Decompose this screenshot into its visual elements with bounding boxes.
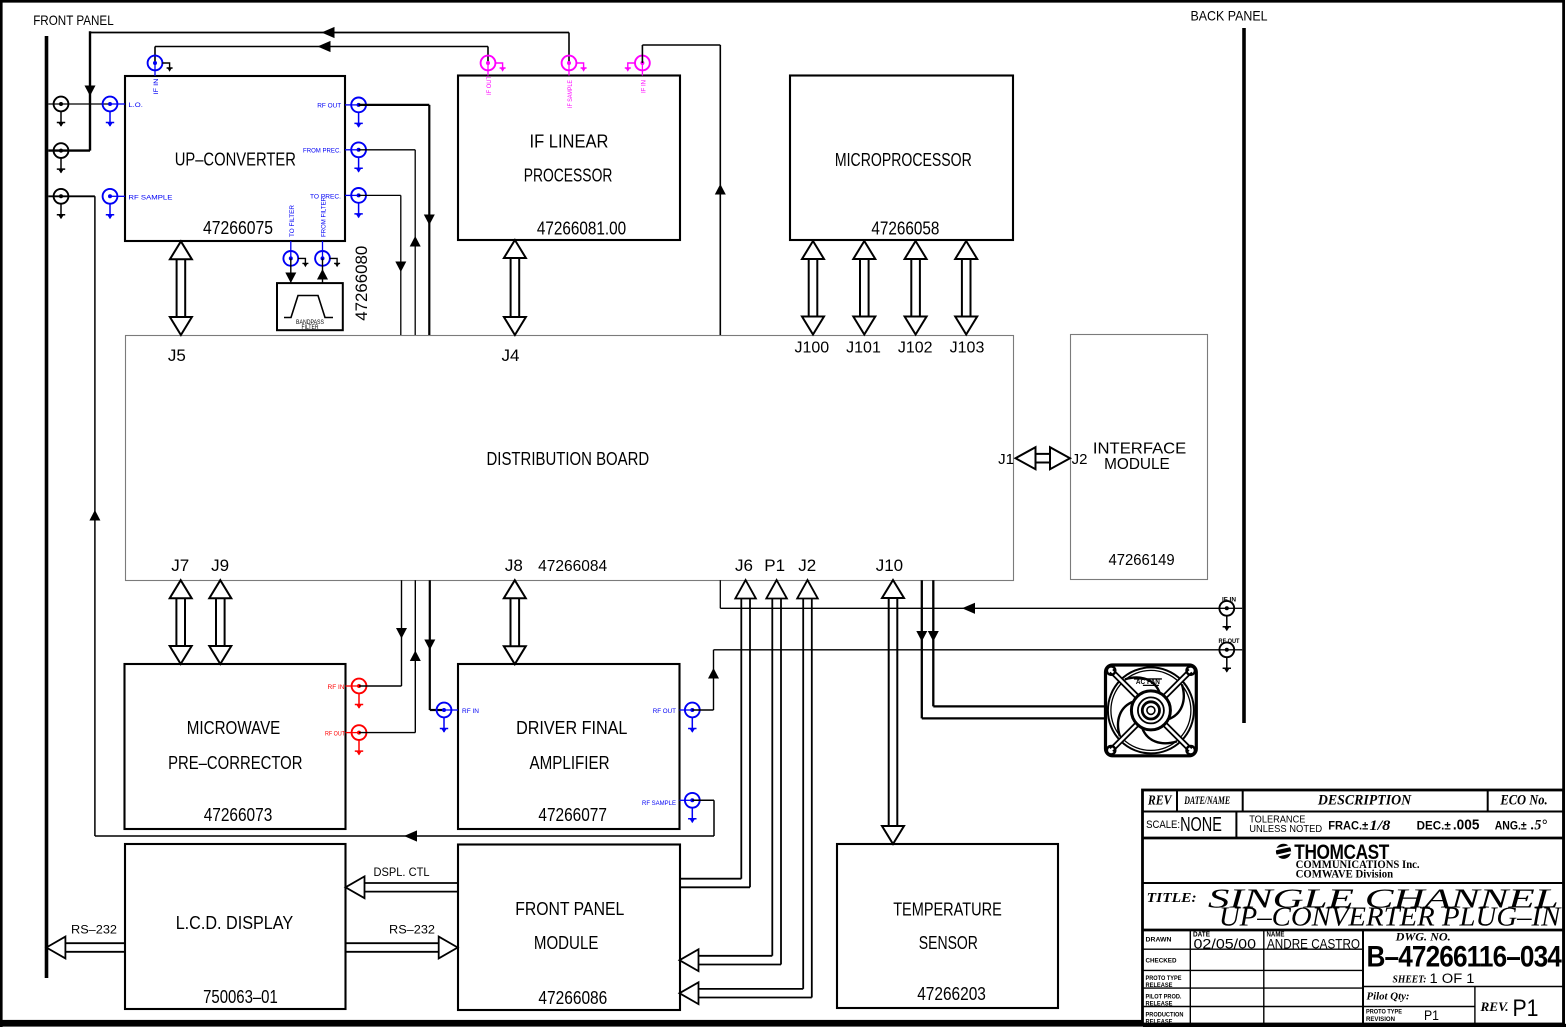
wire RF OUT up-converter to driver RF IN <box>359 105 435 335</box>
connector IF OUT if-linear-processor <box>481 56 506 95</box>
value 47266080 <box>352 246 371 321</box>
svg-text:IF IN: IF IN <box>641 80 648 93</box>
svg-text:J2: J2 <box>1072 451 1088 468</box>
wire FROM FILTER from bandpass filter <box>317 258 328 283</box>
svg-text:IF IN: IF IN <box>1222 598 1236 604</box>
svg-text:J2: J2 <box>798 556 816 575</box>
svg-text:1/8: 1/8 <box>1369 818 1391 834</box>
svg-text:INTERFACE: INTERFACE <box>1093 440 1186 457</box>
block DISTRIBUTION BOARD 47266084 <box>126 336 1014 581</box>
svg-text:FROM PREC.: FROM PREC. <box>303 148 341 155</box>
svg-text:47266203: 47266203 <box>917 984 986 1004</box>
wire front panel coax1 to L.O. <box>48 103 110 105</box>
svg-text:UP–CONVERTER: UP–CONVERTER <box>175 149 296 169</box>
connector RF OUT driver final amplifier <box>653 703 700 733</box>
wire RF IN pre-corrector to distribution board <box>359 580 407 686</box>
svg-text:.005: .005 <box>1453 817 1480 834</box>
revision REV. P1 <box>1479 995 1538 1022</box>
front panel bus bar <box>45 36 49 978</box>
svg-text:L.O.: L.O. <box>128 102 143 109</box>
svg-text:ANDRE CASTRO: ANDRE CASTRO <box>1267 936 1360 952</box>
svg-text:AMPLIFIER: AMPLIFIER <box>530 753 610 773</box>
connector FROM PREC. up-converter <box>303 142 366 172</box>
svg-text:DRIVER FINAL: DRIVER FINAL <box>516 718 627 738</box>
ribbon J7 distribution board to microwave pre-corrector <box>170 580 192 664</box>
title block header REV / DATE-NAME / DESCRIPTION / ECO No. <box>1147 793 1548 809</box>
svg-text:MICROPROCESSOR: MICROPROCESSOR <box>835 150 972 170</box>
node P1 <box>764 556 785 575</box>
ribbon P1 to front panel module <box>680 580 787 971</box>
svg-text:47266073: 47266073 <box>204 805 273 825</box>
svg-text:Pilot Qty:: Pilot Qty: <box>1367 992 1410 1003</box>
connector RF IN driver final amplifier <box>437 703 480 733</box>
svg-text:RF IN: RF IN <box>462 708 479 715</box>
node J10 <box>876 556 903 575</box>
node J101 <box>846 340 881 357</box>
block FRONT PANEL MODULE 47266086 <box>458 845 680 1011</box>
ribbon J100 <box>802 241 824 335</box>
svg-text:J10: J10 <box>876 556 903 575</box>
svg-text:J5: J5 <box>168 346 186 365</box>
wire distribution board to driver RF IN <box>424 580 444 710</box>
block BANDPASS FILTER 47266080 <box>277 283 343 331</box>
block TEMPERATURE SENSOR 47266203 <box>837 844 1058 1008</box>
wire IF SAMPLE to front panel (top line) <box>89 27 569 38</box>
svg-text:RS–232: RS–232 <box>389 923 435 937</box>
svg-text:PROTO TYPE: PROTO TYPE <box>1366 1009 1403 1016</box>
wire IF IN (linear processor) from distribution board <box>642 45 725 335</box>
svg-text:B–47266116–034: B–47266116–034 <box>1367 941 1563 974</box>
svg-text:RELEASE: RELEASE <box>1146 1018 1174 1025</box>
svg-text:J103: J103 <box>950 340 985 357</box>
svg-text:FRAC.±: FRAC.± <box>1328 821 1369 833</box>
wire TO PREC. to distribution board <box>359 195 407 335</box>
svg-text:ANG.±: ANG.± <box>1495 821 1528 833</box>
svg-text:47266080: 47266080 <box>352 246 371 321</box>
wire IF SAMPLE drop <box>568 33 570 64</box>
ribbon J5 up-converter to distribution board <box>170 241 192 335</box>
node J1 <box>998 451 1014 468</box>
wire RF OUT pre-corrector to distribution board <box>359 580 421 732</box>
svg-text:IF SAMPLE: IF SAMPLE <box>567 79 574 108</box>
node J8 <box>505 556 523 575</box>
svg-text:P1: P1 <box>764 556 785 575</box>
ribbon J6 to front panel module <box>680 580 756 887</box>
svg-text:DRAWN: DRAWN <box>1146 937 1172 944</box>
svg-text:P1: P1 <box>1424 1008 1439 1023</box>
svg-text:J101: J101 <box>846 340 881 357</box>
connector front panel coax 2 <box>54 143 69 173</box>
ribbon J101 <box>853 241 875 335</box>
block MICROWAVE PRE-CORRECTOR 47266073 <box>125 664 346 829</box>
block DRIVER FINAL AMPLIFIER 47266077 <box>458 664 680 829</box>
ribbon RS-232 LCD to front panel module <box>346 923 458 959</box>
title block frame <box>1143 790 1564 1024</box>
svg-text:RF SAMPLE: RF SAMPLE <box>128 195 173 202</box>
svg-text:L.C.D. DISPLAY: L.C.D. DISPLAY <box>176 913 294 933</box>
title SINGLE CHANNEL UP-CONVERTER PLUG-IN <box>1147 883 1563 931</box>
connector RF OUT back panel <box>1219 639 1243 673</box>
svg-text:FRONT PANEL: FRONT PANEL <box>515 899 624 919</box>
wire distribution board to back panel IF IN <box>720 580 1227 614</box>
connector front panel coax 3 <box>54 189 69 219</box>
title block scale and tolerance row <box>1146 814 1547 836</box>
svg-text:J102: J102 <box>898 340 933 357</box>
svg-text:MODULE: MODULE <box>1104 456 1170 473</box>
ribbon DSPL. CTL front panel module to LCD <box>346 865 459 898</box>
svg-text:SENSOR: SENSOR <box>919 933 978 953</box>
svg-text:CHECKED: CHECKED <box>1146 958 1177 965</box>
ribbon J4 if linear processor to distribution board <box>504 240 526 335</box>
block INTERFACE MODULE 47266149 <box>1071 335 1208 580</box>
svg-text:DEC.±: DEC.± <box>1417 821 1452 833</box>
svg-text:1 OF 1: 1 OF 1 <box>1430 971 1475 986</box>
svg-text:RELEASE: RELEASE <box>1146 1000 1174 1007</box>
svg-text:IF OUT: IF OUT <box>486 76 493 95</box>
node J4 <box>502 346 520 365</box>
value 47266084 <box>538 558 607 575</box>
svg-text:DATE/NAME: DATE/NAME <box>1184 795 1231 807</box>
svg-text:DSPL. CTL: DSPL. CTL <box>374 865 430 879</box>
svg-text:MICROWAVE: MICROWAVE <box>187 718 280 738</box>
svg-text:FILTER: FILTER <box>302 325 320 331</box>
ribbon J103 <box>955 241 977 335</box>
svg-text:IF IN: IF IN <box>153 78 160 94</box>
connector RF IN microwave pre-corrector <box>328 679 367 709</box>
svg-text:FRONT PANEL: FRONT PANEL <box>33 12 114 28</box>
node J2 interface module <box>1072 451 1088 468</box>
release row labels <box>1146 937 1184 1026</box>
svg-text:ECO No.: ECO No. <box>1500 793 1548 809</box>
svg-text:RF OUT: RF OUT <box>653 708 676 715</box>
wire IF OUT (linear processor) to IF IN (up-converter) <box>155 41 488 63</box>
svg-text:J7: J7 <box>171 556 189 575</box>
svg-text:02/05/00: 02/05/00 <box>1194 936 1257 952</box>
svg-text:BACK PANEL: BACK PANEL <box>1191 8 1268 24</box>
block MICROPROCESSOR 47266058 <box>790 76 1013 241</box>
svg-text:RF OUT: RF OUT <box>1219 639 1240 645</box>
wire RF OUT driver to back panel RF OUT <box>692 650 1227 710</box>
wire RF SAMPLE driver to y836 line <box>692 799 714 801</box>
wire front panel coax2 to IF SAMPLE line <box>48 31 95 150</box>
back panel bus bar <box>1242 28 1246 723</box>
node J103 <box>950 340 985 357</box>
connector L.O. up-converter <box>103 97 144 127</box>
svg-text:UNLESS NOTED: UNLESS NOTED <box>1249 824 1322 835</box>
svg-text:RF OUT: RF OUT <box>317 103 341 110</box>
svg-text:DISTRIBUTION BOARD: DISTRIBUTION BOARD <box>487 449 650 469</box>
connector FROM FILTER up-converter <box>315 197 340 267</box>
svg-text:47266081.00: 47266081.00 <box>537 218 626 238</box>
drawn row date and name <box>1193 932 1360 952</box>
svg-text:PROCESSOR: PROCESSOR <box>524 165 613 185</box>
svg-text:47266075: 47266075 <box>203 218 273 238</box>
svg-text:J9: J9 <box>211 556 229 575</box>
svg-text:J1: J1 <box>998 451 1014 468</box>
svg-text:IF LINEAR: IF LINEAR <box>530 131 609 151</box>
svg-text:J100: J100 <box>794 340 829 357</box>
svg-text:47266086: 47266086 <box>538 988 607 1008</box>
THOMCAST logo and company name <box>1276 841 1420 881</box>
svg-text:UP–CONVERTER PLUG–IN: UP–CONVERTER PLUG–IN <box>1219 901 1563 931</box>
label BACK PANEL <box>1191 8 1268 24</box>
svg-text:.5°: .5° <box>1531 818 1547 834</box>
svg-text:J6: J6 <box>735 556 753 575</box>
svg-text:TITLE:: TITLE: <box>1147 891 1197 906</box>
svg-text:47266077: 47266077 <box>538 805 607 825</box>
svg-text:NONE: NONE <box>1180 814 1222 836</box>
node J5 <box>168 346 186 365</box>
connector IF IN if-linear-processor <box>625 56 650 93</box>
pilot qty and proto type revision <box>1366 992 1439 1024</box>
node J2 <box>798 556 816 575</box>
svg-text:J8: J8 <box>505 556 523 575</box>
wire fan power 1 <box>916 580 1105 718</box>
svg-text:TO FILTER: TO FILTER <box>289 205 296 237</box>
ribbon J102 <box>905 241 927 335</box>
ribbon J9 distribution board to microwave pre-corrector <box>209 580 231 664</box>
block IF LINEAR PROCESSOR 47266081.00 <box>458 76 680 241</box>
svg-text:REVISION: REVISION <box>1366 1016 1395 1023</box>
node J9 <box>211 556 229 575</box>
svg-text:RS–232: RS–232 <box>71 923 117 937</box>
node J100 <box>794 340 829 357</box>
svg-text:SCALE:: SCALE: <box>1146 819 1180 831</box>
svg-text:RF OUT: RF OUT <box>325 730 345 737</box>
svg-text:TEMPERATURE: TEMPERATURE <box>893 899 1002 919</box>
svg-text:PRE–CORRECTOR: PRE–CORRECTOR <box>168 753 302 773</box>
svg-text:REV: REV <box>1147 794 1173 809</box>
ribbon J8 distribution board to driver final amplifier <box>504 580 526 664</box>
connector RF SAMPLE driver final amplifier <box>642 793 700 823</box>
svg-text:J4: J4 <box>502 346 520 365</box>
svg-text:RF SAMPLE: RF SAMPLE <box>642 800 677 807</box>
svg-text:750063–01: 750063–01 <box>203 987 278 1007</box>
svg-text:SHEET:: SHEET: <box>1393 975 1427 986</box>
label FRONT PANEL <box>33 12 114 28</box>
connector RF SAMPLE up-converter <box>103 189 174 219</box>
ribbon J10 distribution board to temperature sensor <box>882 580 904 844</box>
node J102 <box>898 340 933 357</box>
svg-text:MODULE: MODULE <box>534 933 599 953</box>
connector RF OUT microwave pre-corrector <box>325 725 366 755</box>
ribbon J1-J2 distribution board to interface module <box>1016 447 1071 469</box>
svg-text:REV.: REV. <box>1479 999 1508 1014</box>
svg-text:FROM FILTER: FROM FILTER <box>321 197 328 237</box>
wire TO FILTER to bandpass filter <box>285 258 296 283</box>
connector front panel coax 1 <box>54 97 69 127</box>
connector IF IN up-converter <box>148 56 173 95</box>
block L.C.D. DISPLAY 750063-01 <box>125 844 346 1009</box>
svg-text:47266058: 47266058 <box>871 218 939 238</box>
connector IF IN back panel <box>1219 598 1242 632</box>
svg-text:RF IN: RF IN <box>328 684 345 691</box>
svg-text:RELEASE: RELEASE <box>1146 982 1174 989</box>
connector IF SAMPLE if-linear-processor <box>562 56 587 108</box>
svg-text:47266149: 47266149 <box>1109 552 1175 569</box>
svg-text:COMWAVE Division: COMWAVE Division <box>1296 869 1394 881</box>
connector TO FILTER up-converter <box>283 205 308 267</box>
drawing number B-47266116-034 <box>1367 932 1563 987</box>
node J6 <box>735 556 753 575</box>
title block release rows grid <box>1143 930 1564 1024</box>
connector TO PREC. up-converter <box>310 188 366 218</box>
node J7 <box>171 556 189 575</box>
svg-text:DESCRIPTION: DESCRIPTION <box>1317 793 1412 809</box>
ribbon RS-232 LCD to front panel <box>46 923 125 959</box>
svg-text:P1: P1 <box>1513 995 1539 1022</box>
connector RF OUT up-converter <box>317 98 366 128</box>
wire fan power 2 <box>928 580 1106 706</box>
wire front panel coax3 to driver RF SAMPLE <box>48 196 714 841</box>
fan (AC cooling fan) <box>1106 665 1197 756</box>
wire FROM PREC. to distribution board <box>359 150 421 335</box>
svg-text:47266084: 47266084 <box>538 558 607 575</box>
block UP-CONVERTER 47266075 <box>125 76 345 241</box>
ribbon J2 to front panel module <box>680 580 818 1004</box>
